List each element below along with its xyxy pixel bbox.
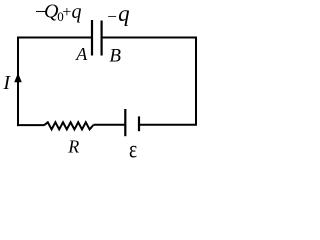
wire top-right segment [102,37,197,39]
svg-text:B: B [109,45,121,66]
svg-text:q: q [118,1,130,26]
svg-text:I: I [2,72,11,94]
svg-text:A: A [75,44,88,64]
label -Q0+q [35,1,82,25]
svg-text:−: − [107,7,117,26]
wire battery-to-resistor segment [94,124,126,126]
wire bottom-left segment [17,124,44,126]
wire left side [17,37,19,127]
battery long plate [124,109,126,136]
svg-text:+: + [62,4,71,21]
svg-text:q: q [72,1,82,23]
wire bottom-right segment [140,124,197,126]
svg-text:R: R [67,137,79,157]
svg-text:ε: ε [129,135,137,163]
resistor R zigzag [44,122,94,129]
wire right side [195,37,197,126]
wire top-left segment [17,37,92,39]
label -q [107,1,129,26]
current arrow on left wire [14,73,22,82]
capacitor plate B [100,21,102,56]
capacitor plate A [91,20,93,56]
battery short plate [138,116,140,131]
